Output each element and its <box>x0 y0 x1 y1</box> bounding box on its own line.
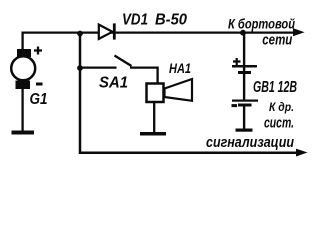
svg-text:сети: сети <box>262 32 292 49</box>
battery GB1: + mark <box>233 58 241 65</box>
wire: battery inter-cell stem <box>243 67 245 100</box>
svg-text:GB1 12В: GB1 12В <box>253 79 297 96</box>
svg-text:SA1: SA1 <box>99 75 128 92</box>
svg-text:К др.: К др. <box>269 100 294 114</box>
wire: battery bottom lead <box>243 106 245 129</box>
svg-text:К бортовой: К бортовой <box>228 15 295 31</box>
svg-text:VD1: VD1 <box>122 12 148 29</box>
svg-text:сист.: сист. <box>264 115 294 132</box>
svg-text:В-50: В-50 <box>155 12 187 29</box>
svg-text:G1: G1 <box>30 91 48 108</box>
diode VD1: cathode bar <box>113 23 116 39</box>
battery GB1: cell 2 long plate <box>232 100 258 102</box>
switch SA1: blade <box>115 56 132 67</box>
battery GB1: cell 1 short plate <box>238 71 251 74</box>
generator G1: + polarity mark <box>34 47 42 55</box>
ground: chassis bar under HA1 <box>140 132 166 136</box>
wire: SA1 left lead <box>80 66 117 68</box>
junction: top rail / battery tap (dot) <box>240 30 246 36</box>
junction: SA1 branch (dot) <box>77 65 83 71</box>
svg-text:сигнализации: сигнализации <box>206 134 294 151</box>
battery GB1: cell 2 short plate <box>238 104 252 107</box>
generator G1: body circle <box>11 56 35 80</box>
svg-text:НА1: НА1 <box>169 60 191 76</box>
sounder HA1: horn bell <box>165 79 193 101</box>
battery GB1: cell 1 long plate <box>232 65 257 68</box>
generator G1: - polarity mark <box>36 83 43 86</box>
junction: top rail / alarm branch (dot) <box>77 31 83 37</box>
wire: HA1 lower lead <box>153 103 155 132</box>
wire: battery top lead <box>243 33 245 66</box>
ground: chassis bar under G1 <box>12 131 35 135</box>
arrow: to onboard network <box>294 29 304 36</box>
ground: chassis bar under GB1 <box>236 129 253 132</box>
wire: SA1 right lead with corner down to HA1 <box>130 68 158 83</box>
battery GB1: - mark <box>232 104 238 107</box>
wire: top rail with corner down to G1 positive terminal <box>23 33 294 50</box>
generator G1: top terminal block <box>17 49 31 57</box>
diode VD1: anode triangle <box>99 25 113 39</box>
wire: alarm branch vertical down to bottom rail corner <box>80 34 297 153</box>
sounder HA1: body <box>147 84 164 103</box>
arrow: to other alarm system <box>297 149 307 156</box>
generator G1: bottom terminal block <box>16 81 31 90</box>
wire: G1 negative lead down <box>21 89 23 131</box>
